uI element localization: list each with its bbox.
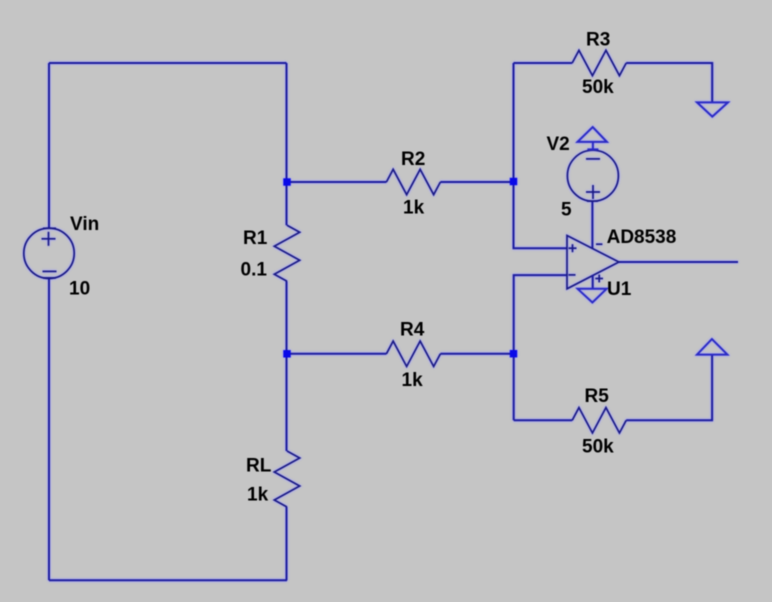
wire R2 row right lead <box>440 181 513 183</box>
wire top-left horizontal <box>49 62 287 64</box>
value 1k of RL <box>247 484 269 505</box>
wire R4 row right lead <box>440 353 513 355</box>
label R3 <box>586 29 610 50</box>
label Vin <box>70 214 99 235</box>
svg-text:1k: 1k <box>247 484 269 505</box>
label AD8538 <box>607 227 677 248</box>
wire mid vertical below RL <box>286 507 288 580</box>
wire left vertical upper <box>48 63 50 228</box>
wire left vertical lower <box>48 279 50 581</box>
wire R4 row left lead <box>287 353 387 355</box>
node junction at R2 right <box>510 178 517 185</box>
value 50k of R3 <box>582 77 614 98</box>
label R5 <box>585 386 610 407</box>
label RL <box>246 456 272 477</box>
ground flag above V2 (rotated) <box>578 127 607 150</box>
wire R5 row right lead and up to flag <box>626 355 712 421</box>
label R4 <box>400 320 425 341</box>
svg-text:R1: R1 <box>243 228 268 249</box>
svg-text:R5: R5 <box>585 386 610 407</box>
wire bottom horizontal <box>49 579 287 581</box>
svg-text:50k: 50k <box>582 77 614 98</box>
ground flag right of R5 (rotated) <box>697 339 727 355</box>
value 5 <box>561 200 572 221</box>
svg-text:0.1: 0.1 <box>241 259 268 280</box>
wire right column to plus input <box>514 63 567 248</box>
wire mid vertical between R1 and RL <box>286 281 288 451</box>
wire R5 row left lead <box>514 419 573 421</box>
voltage source Vin <box>24 228 74 278</box>
label R2 <box>401 149 425 170</box>
ground below op-amp <box>578 275 607 303</box>
resistor R4 <box>386 341 440 366</box>
wire minus input to R4 node and down to R5 row <box>514 275 567 420</box>
wire op-amp output <box>619 261 738 263</box>
resistor R1 <box>274 225 299 281</box>
label U1 <box>607 279 632 300</box>
svg-text:U1: U1 <box>607 279 632 300</box>
wire R3 row left lead <box>514 62 573 64</box>
label R1 <box>243 228 268 249</box>
svg-text:5: 5 <box>561 200 572 221</box>
svg-text:Vin: Vin <box>70 214 99 235</box>
value 50k of R5 <box>582 436 614 457</box>
label V2 <box>547 134 570 155</box>
resistor R2 <box>386 169 440 194</box>
voltage source V2 <box>567 150 618 201</box>
value 0.1 <box>241 259 268 280</box>
wire R3 row right lead and down to ground <box>626 63 712 102</box>
resistor R5 <box>572 408 626 433</box>
node junction at R2 left <box>283 178 290 185</box>
op-amp U1 <box>567 236 619 289</box>
svg-text:1k: 1k <box>403 198 425 219</box>
value 1k of R2 <box>403 198 425 219</box>
svg-text:R2: R2 <box>401 149 425 170</box>
svg-text:AD8538: AD8538 <box>607 227 677 248</box>
node junction at R4 left <box>283 350 290 357</box>
ground right of R3 <box>697 102 728 116</box>
value 10 <box>69 279 90 300</box>
svg-text:1k: 1k <box>402 370 424 391</box>
resistor RL <box>274 451 299 507</box>
node junction at R4 right <box>510 350 517 357</box>
svg-text:V2: V2 <box>547 134 570 155</box>
wire mid vertical above R1 <box>286 63 288 225</box>
wire R2 row left lead <box>287 181 387 183</box>
svg-text:10: 10 <box>69 279 90 300</box>
resistor R3 <box>572 50 626 75</box>
wire V2 bottom lead to op-amp V+ pin <box>591 201 593 248</box>
svg-text:50k: 50k <box>582 436 614 457</box>
value 1k of R4 <box>402 370 424 391</box>
svg-text:R4: R4 <box>400 320 425 341</box>
svg-text:R3: R3 <box>586 29 610 50</box>
svg-text:RL: RL <box>246 456 272 477</box>
